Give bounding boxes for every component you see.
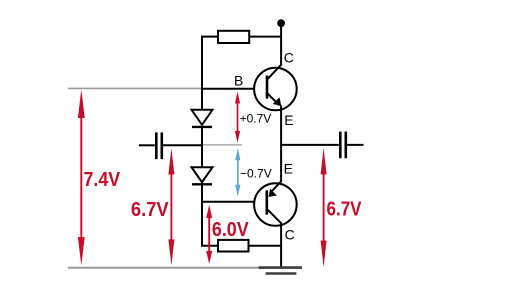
ground (259, 268, 302, 274)
annotation arrow 7.4V (78, 89, 85, 265)
wire top horizontal left lead (202, 36, 218, 38)
svg-text:6.7V: 6.7V (327, 197, 362, 220)
node supply dot (277, 19, 285, 27)
transistor Q2 (254, 181, 297, 226)
annotation arrow 6.7V right (321, 148, 327, 267)
wire capacitor C1 to left rail (163, 144, 202, 146)
wire base Q1 (202, 88, 254, 90)
wire left rail top segment (201, 36, 203, 111)
svg-text:B: B (234, 72, 243, 88)
wire capacitor C2 right stub (347, 144, 363, 146)
capacitor C1 left lead (139, 144, 155, 146)
resistor R1 (218, 31, 249, 43)
svg-text:−0.7V: −0.7V (240, 167, 272, 181)
node bottom reference gray line (68, 267, 262, 269)
transistor Q1 (254, 64, 297, 110)
annotation arrow +0.7V (235, 92, 240, 143)
svg-text:7.4V: 7.4V (84, 168, 121, 191)
wire supply dot to resistor row (280, 23, 282, 36)
capacitor C2 (340, 132, 346, 159)
capacitor C2 lead from emitter column (281, 144, 339, 146)
capacitor C1 (156, 132, 162, 159)
wire collector Q1 vertical (280, 37, 282, 65)
annotation arrow 6.7V left (168, 148, 174, 265)
diode D2 (192, 167, 213, 184)
node top reference gray line (68, 87, 202, 89)
svg-text:E: E (284, 161, 293, 177)
wire left rail bottom segment (202, 184, 218, 245)
svg-text:C: C (285, 226, 295, 242)
svg-text:6.7V: 6.7V (131, 198, 169, 221)
diode D1 (192, 110, 213, 127)
wire Q2 base (202, 201, 254, 203)
svg-text:6.0V: 6.0V (212, 218, 249, 241)
wire emitter column Q1 to Q2 (280, 106, 282, 182)
wire resistor R1 right lead (249, 36, 281, 38)
wire resistor R2 right lead (249, 245, 282, 247)
svg-text:E: E (284, 112, 293, 128)
annotation arrow 6.0V (206, 205, 212, 264)
wire left rail between D1 and cap junction (201, 127, 203, 167)
svg-text:C: C (284, 49, 294, 65)
annotation arrow -0.7V (235, 148, 240, 196)
svg-text:+0.7V: +0.7V (240, 112, 272, 126)
resistor R2 (218, 240, 249, 252)
node mid reference gray line (202, 144, 242, 146)
wire collector Q2 to ground (280, 223, 282, 267)
